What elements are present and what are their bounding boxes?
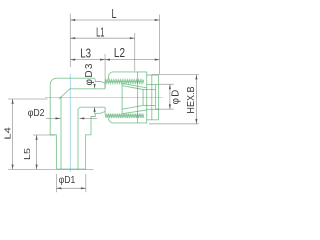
ext lines L4 bbox=[8, 99, 94, 169]
ext line thread start bbox=[104, 54, 106, 88]
thread zigzag top bbox=[105, 80, 144, 83]
ext line right face bbox=[159, 15, 161, 75]
nut outline bbox=[109, 72, 159, 123]
svg-text:φD2: φD2 bbox=[28, 108, 45, 119]
svg-text:L5: L5 bbox=[23, 147, 32, 160]
dimension L5 bbox=[36, 135, 38, 169]
svg-text:L3: L3 bbox=[80, 47, 91, 61]
dimension L4 bbox=[12, 99, 14, 169]
centerline horizontal leg axis bbox=[45, 96, 163, 98]
ext lines HEX.B bbox=[149, 75, 199, 124]
dimension phi D2 bbox=[46, 117, 97, 119]
dimension L bbox=[70, 19, 159, 21]
svg-text:L1: L1 bbox=[96, 26, 104, 40]
dimension phi D bbox=[169, 84, 171, 109]
tube hole edges at right face bbox=[147, 84, 159, 109]
nut internal verticals bbox=[138, 72, 152, 123]
dimension L1 bbox=[70, 37, 134, 39]
bore line left bbox=[60, 97, 62, 170]
neck top edge bbox=[70, 88, 105, 90]
dimension phi D1 bbox=[56, 187, 85, 189]
neck bottom edge with fillet bbox=[78, 107, 105, 169]
elbow inner miter line bbox=[59, 89, 70, 99]
thread start verticals bbox=[104, 83, 106, 113]
svg-text:L2: L2 bbox=[114, 46, 125, 60]
dimension HEX.B bbox=[195, 75, 197, 124]
ext lines phi D bbox=[156, 84, 174, 109]
ext line L5 shoulder bbox=[33, 134, 55, 136]
thread zigzag bottom bbox=[105, 114, 144, 118]
svg-text:φD1: φD1 bbox=[59, 175, 76, 186]
tube bore lines in nut bbox=[143, 84, 156, 109]
elbow body outline bbox=[50, 78, 105, 169]
centerline vertical leg axis bbox=[69, 74, 71, 172]
ext line left (axis) for L,L1,L3 bbox=[69, 14, 71, 68]
svg-text:L: L bbox=[112, 7, 117, 21]
svg-text:L4: L4 bbox=[3, 127, 12, 140]
svg-text:φD: φD bbox=[171, 90, 182, 105]
dimension phi D3 bbox=[94, 84, 96, 114]
ext lines phi D1 bbox=[56, 174, 85, 192]
ext line thread end bbox=[134, 33, 136, 71]
dimension L3 bbox=[70, 59, 105, 61]
svg-text:HEX.B: HEX.B bbox=[186, 86, 197, 114]
collet cone slants bbox=[122, 83, 147, 114]
dimension L2 bbox=[105, 59, 160, 61]
svg-text:φD3: φD3 bbox=[84, 63, 95, 85]
